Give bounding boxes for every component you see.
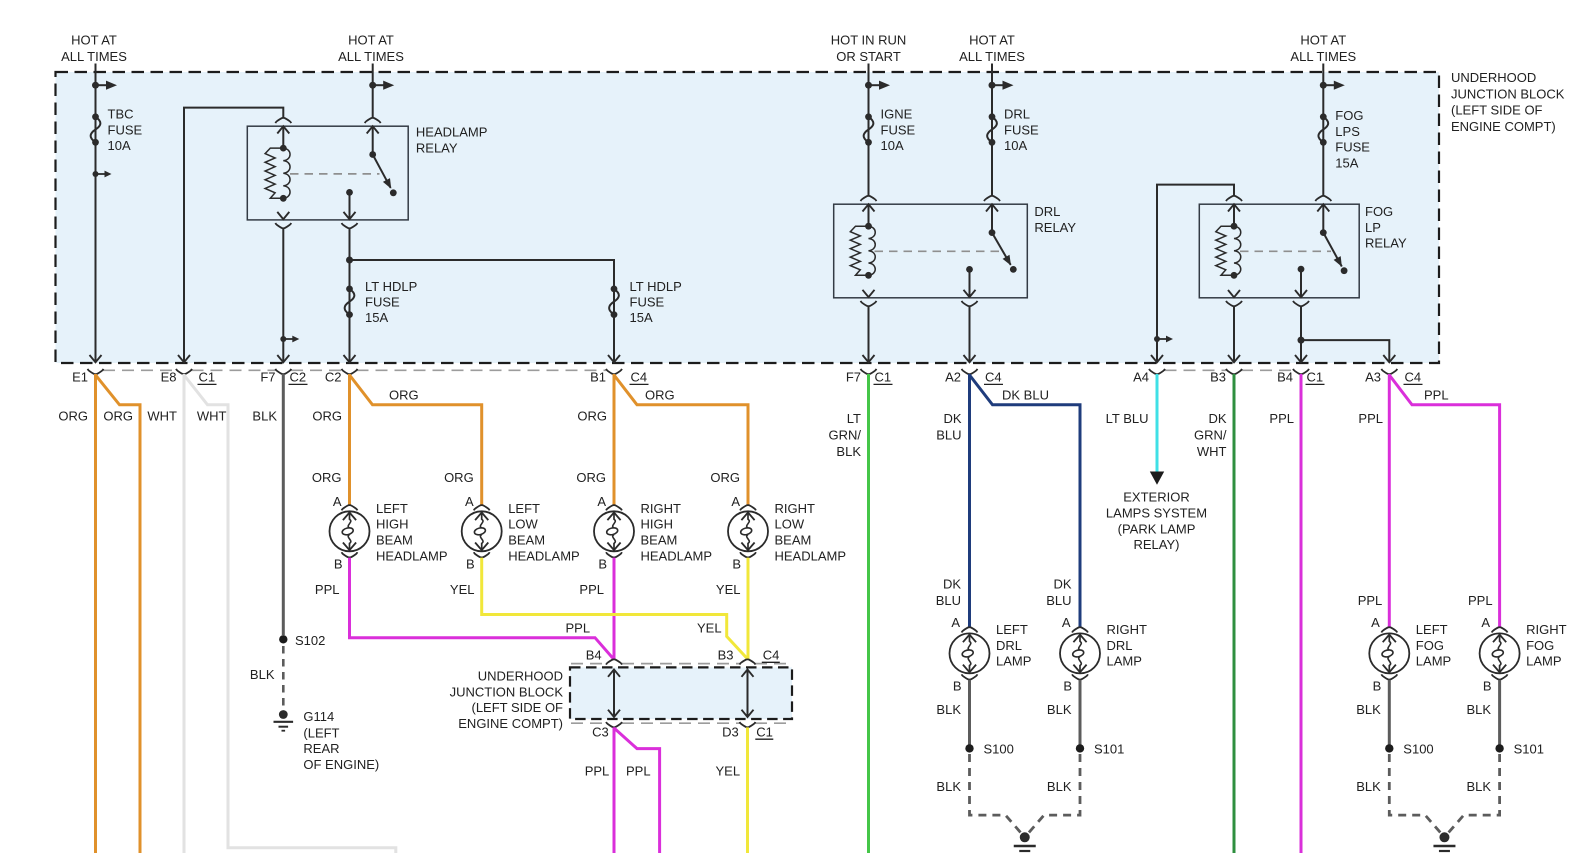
svg-text:LT: LT: [847, 411, 861, 426]
wire: DRL common to A2: [962, 301, 978, 362]
label C4 (block2): [762, 648, 780, 663]
label: fog lamp 1 name: [1416, 622, 1451, 669]
node: fog output junction: [1298, 337, 1305, 344]
wire WHT E8 jog branch with bottom offset: [184, 375, 396, 853]
marker: feed arrow headlamp: [369, 81, 394, 90]
svg-text:15A: 15A: [630, 310, 653, 325]
svg-text:YEL: YEL: [697, 620, 722, 635]
svg-text:ALL TIMES: ALL TIMES: [959, 49, 1025, 64]
wire BLK dashed drl left to ground: [970, 754, 1024, 836]
connector A4: [1133, 369, 1165, 385]
marker: feed arrow at TBC top: [92, 81, 117, 90]
svg-text:BLK: BLK: [1467, 779, 1492, 794]
headlamp relay switch pin entry (top): [365, 64, 381, 155]
svg-text:BEAM: BEAM: [641, 533, 678, 548]
lamp: left high beam headlamp: [330, 505, 370, 557]
svg-text:B4: B4: [1277, 370, 1293, 385]
svg-text:PPL: PPL: [1269, 411, 1294, 426]
wire YEL left low beam B to B3: [482, 558, 748, 659]
wire YEL right low beam B to B3: [747, 558, 750, 660]
svg-text:WHT: WHT: [197, 409, 227, 424]
connector F7 / C1 (DRL): [846, 369, 893, 385]
svg-text:(PARK LAMP: (PARK LAMP: [1118, 521, 1196, 536]
wire: branch to A3: [1301, 340, 1389, 361]
marker: small tap arrow on A4 wire: [1154, 336, 1173, 343]
wire BLK dashed fog left to ground: [1389, 754, 1443, 836]
wire BLK drl lamp 2 to splice: [1079, 680, 1082, 745]
block2 pass-through B3-D3: [740, 659, 756, 727]
svg-text:15A: 15A: [1335, 155, 1358, 170]
svg-text:B3: B3: [1210, 370, 1226, 385]
svg-text:ORG: ORG: [576, 470, 606, 485]
wire BLK dashed S102 to G114: [282, 646, 285, 706]
svg-text:B: B: [1483, 678, 1492, 693]
svg-text:LAMPS SYSTEM: LAMPS SYSTEM: [1106, 506, 1207, 521]
underhood junction block (top) dashed border: [56, 72, 1440, 363]
label: left low beam headlamp name: [508, 501, 580, 563]
relay box: DRL RELAY: [834, 204, 1028, 298]
block2 pass-through B4-C3: [606, 659, 622, 727]
wire DK GRN/WHT B3: [1233, 374, 1236, 853]
svg-text:B: B: [466, 556, 475, 571]
svg-text:F7: F7: [260, 370, 275, 385]
label DK GRN/WHT: [1194, 411, 1227, 459]
svg-text:BLK: BLK: [252, 409, 277, 424]
wire LT BLU A4 stub: [1156, 374, 1159, 472]
svg-text:RELAY: RELAY: [1365, 236, 1407, 251]
lamp: RIGHT FOG LAMP: [1480, 627, 1520, 679]
label G114 (LEFT REAR OF ENGINE): [303, 709, 379, 772]
arrow into connector A3: [1383, 355, 1395, 362]
DRL relay coil: [850, 223, 875, 279]
svg-text:YEL: YEL: [450, 582, 475, 597]
svg-text:LPS: LPS: [1335, 124, 1360, 139]
wire: headlamp relay common down to LT HDLP fuses: [342, 223, 358, 362]
svg-text:HEADLAMP: HEADLAMP: [376, 548, 448, 563]
arrow into connector B1: [608, 355, 620, 362]
svg-text:B1: B1: [590, 370, 606, 385]
wire: FOG LPS feed: [1322, 64, 1324, 196]
svg-text:DK: DK: [1053, 577, 1071, 592]
svg-text:WHT: WHT: [1197, 444, 1227, 459]
svg-text:IGNE: IGNE: [881, 107, 913, 122]
svg-text:ALL TIMES: ALL TIMES: [1290, 49, 1356, 64]
svg-text:HOT AT: HOT AT: [348, 33, 394, 48]
label: UNDERHOOD JUNCTION BLOCK (left of block2): [450, 669, 564, 731]
svg-text:PPL: PPL: [585, 764, 610, 779]
svg-text:A: A: [731, 494, 740, 509]
svg-text:BLK: BLK: [1047, 779, 1072, 794]
wire PPL right high beam B to B4: [613, 558, 616, 660]
svg-text:FUSE: FUSE: [108, 122, 143, 137]
wire BLK drl lamp 1 to splice: [968, 680, 971, 745]
svg-text:FOG: FOG: [1365, 204, 1393, 219]
svg-text:JUNCTION BLOCK: JUNCTION BLOCK: [1451, 86, 1565, 101]
svg-text:FUSE: FUSE: [630, 295, 665, 310]
label: HOT AT ALL TIMES (headlamp relay): [338, 33, 404, 64]
label: HOT AT ALL TIMES (FOG): [1290, 33, 1356, 64]
svg-text:LEFT: LEFT: [1416, 622, 1448, 637]
wire DK BLU A2 to left DRL lamp: [968, 374, 971, 628]
wire: fog common to B4 and A3: [1293, 301, 1309, 362]
wire BLK dashed drl right to ground: [1026, 754, 1080, 836]
wire: TBC feed E1 vertical: [95, 64, 97, 362]
lamp: LEFT DRL LAMP: [950, 627, 990, 679]
arrow into connector F7 (C2): [277, 355, 289, 362]
svg-text:BLK: BLK: [1047, 702, 1072, 717]
fog relay armature dashed link: [1240, 250, 1331, 252]
svg-text:UNDERHOOD: UNDERHOOD: [1451, 70, 1536, 85]
svg-text:LAMP: LAMP: [1526, 654, 1561, 669]
wire PPL A3 to left fog lamp: [1388, 374, 1391, 628]
marker: feed arrow DRL: [989, 81, 1014, 90]
svg-text:ORG: ORG: [312, 470, 342, 485]
svg-text:HOT AT: HOT AT: [969, 33, 1015, 48]
label DK BLU above drl lamp 1: [936, 577, 962, 608]
fuse TBC FUSE 10A: [91, 107, 143, 153]
svg-text:BLU: BLU: [936, 427, 961, 442]
headlamp relay common pin: [344, 189, 356, 220]
svg-text:G114: G114: [303, 709, 334, 724]
svg-text:FUSE: FUSE: [881, 122, 916, 137]
svg-text:(LEFT: (LEFT: [303, 725, 339, 740]
arrow into connector B3: [1228, 355, 1240, 362]
svg-text:HIGH: HIGH: [641, 517, 674, 532]
wire: E8 to headlamp relay coil: [184, 108, 283, 362]
svg-text:10A: 10A: [1004, 138, 1027, 153]
svg-text:HOT AT: HOT AT: [1300, 33, 1346, 48]
arrow into connector F7 (C1): [863, 355, 875, 362]
ground fog: [1433, 832, 1455, 853]
arrow into connector C2: [344, 355, 356, 362]
wire: crossover to right LT HDLP fuse: [350, 260, 615, 362]
svg-text:DRL: DRL: [1107, 638, 1133, 653]
splice S101 drl: [1076, 742, 1125, 757]
svg-text:PPL: PPL: [315, 582, 340, 597]
label: HOT AT ALL TIMES (TBC): [61, 33, 127, 64]
svg-text:BEAM: BEAM: [508, 533, 545, 548]
svg-text:ENGINE COMPT): ENGINE COMPT): [458, 716, 563, 731]
svg-text:C1: C1: [1307, 370, 1324, 385]
DRL relay switch pin entry: [984, 196, 1000, 233]
svg-text:RIGHT: RIGHT: [1107, 622, 1148, 637]
svg-text:PPL: PPL: [579, 582, 604, 597]
svg-text:HEADLAMP: HEADLAMP: [508, 548, 580, 563]
label: left high beam headlamp name: [376, 501, 448, 563]
svg-text:BLK: BLK: [1467, 702, 1492, 717]
label C1 (block2): [755, 724, 773, 739]
gray dashed rows block2 bottom: [571, 722, 791, 724]
lamp: right high beam headlamp: [594, 505, 634, 557]
svg-text:LEFT: LEFT: [508, 501, 540, 516]
arrow into connector E1: [90, 355, 102, 362]
label LT GRN/BLK: [829, 411, 862, 459]
fog relay coil pin entry: [1226, 196, 1242, 226]
svg-text:BLK: BLK: [1356, 702, 1381, 717]
svg-text:GRN/: GRN/: [1194, 427, 1227, 442]
wire: A4 up-and-over to fog relay coil: [1157, 185, 1234, 362]
svg-text:ALL TIMES: ALL TIMES: [338, 49, 404, 64]
wire YEL D3 down: [746, 727, 749, 853]
svg-text:OR START: OR START: [836, 49, 901, 64]
label: drl lamp 2 name: [1107, 622, 1148, 669]
marker: feed arrow FOG: [1320, 81, 1345, 90]
underhood junction block (top) fill: [56, 72, 1440, 363]
DRL relay switch arm: [989, 229, 1017, 273]
svg-text:LT HDLP: LT HDLP: [630, 279, 682, 294]
svg-text:C4: C4: [1405, 370, 1422, 385]
svg-text:C4: C4: [763, 648, 780, 663]
svg-text:GRN/: GRN/: [829, 427, 862, 442]
svg-text:HOT AT: HOT AT: [71, 33, 117, 48]
svg-text:LEFT: LEFT: [996, 622, 1028, 637]
headlamp relay coil pin entry (top): [275, 118, 291, 148]
connector F7 / C2: [260, 369, 307, 385]
svg-text:PPL: PPL: [1424, 388, 1449, 403]
svg-text:HEADLAMP: HEADLAMP: [641, 548, 713, 563]
splice S101 fog: [1495, 742, 1544, 757]
svg-text:RELAY): RELAY): [1134, 537, 1180, 552]
svg-text:HEADLAMP: HEADLAMP: [416, 125, 488, 140]
label: right high beam headlamp name: [641, 501, 713, 563]
fog relay switch arm: [1320, 229, 1348, 274]
arrow into connector E8: [178, 355, 190, 362]
svg-text:E8: E8: [161, 370, 177, 385]
svg-text:C4: C4: [631, 370, 648, 385]
svg-text:PPL: PPL: [566, 620, 591, 635]
svg-text:C1: C1: [756, 724, 773, 739]
fog relay common pin: [1295, 266, 1307, 298]
DRL relay common pin: [964, 266, 976, 298]
svg-text:ORG: ORG: [444, 470, 474, 485]
svg-text:DRL: DRL: [1004, 107, 1030, 122]
underhood junction block 2 fill: [570, 667, 792, 719]
svg-text:DK: DK: [1208, 411, 1226, 426]
svg-text:PPL: PPL: [626, 764, 651, 779]
relay box: FOG LP RELAY: [1199, 204, 1359, 298]
svg-text:ORG: ORG: [389, 388, 419, 403]
headlamp relay switch arm: [369, 151, 396, 196]
splice S100 fog: [1385, 742, 1434, 757]
headlamp relay coil output pin (bottom): [275, 212, 291, 362]
splice S100 drl: [965, 742, 1014, 757]
wire BLK dashed fog right to ground: [1446, 754, 1500, 836]
svg-text:BLU: BLU: [1046, 593, 1071, 608]
svg-text:FUSE: FUSE: [1004, 122, 1039, 137]
svg-text:S101: S101: [1514, 742, 1544, 757]
svg-text:C2: C2: [325, 370, 342, 385]
marker: small tap arrow on F7 wire: [280, 336, 299, 343]
wire PPL C3 jog branch: [614, 728, 660, 853]
wire ORG E1 jog branch: [96, 375, 141, 853]
label: DRL RELAY: [1034, 204, 1076, 235]
svg-text:S100: S100: [1403, 742, 1433, 757]
wire PPL B4 C1: [1300, 374, 1303, 853]
connector B3: [1210, 369, 1242, 385]
svg-text:D3: D3: [722, 724, 739, 739]
svg-text:ORG: ORG: [103, 409, 133, 424]
svg-text:10A: 10A: [108, 138, 131, 153]
svg-text:ORG: ORG: [312, 409, 342, 424]
fuse IGNE FUSE 10A: [864, 107, 916, 153]
wire DK BLU A2 jog to right DRL lamp: [970, 375, 1081, 628]
label: right low beam headlamp name: [775, 501, 847, 563]
svg-text:C1: C1: [875, 370, 892, 385]
wire: IGNE feed: [868, 64, 870, 196]
svg-text:S101: S101: [1094, 742, 1124, 757]
wire ORG B1 jog to right low beam: [614, 375, 748, 506]
svg-text:FUSE: FUSE: [365, 295, 400, 310]
svg-text:A: A: [333, 494, 342, 509]
svg-text:DRL: DRL: [1034, 204, 1060, 219]
svg-text:FOG: FOG: [1335, 108, 1363, 123]
svg-text:FUSE: FUSE: [1335, 140, 1370, 155]
fuse DRL FUSE 10A: [987, 107, 1039, 153]
svg-text:S100: S100: [984, 742, 1014, 757]
svg-text:HEADLAMP: HEADLAMP: [775, 548, 847, 563]
svg-text:(LEFT SIDE OF: (LEFT SIDE OF: [1451, 103, 1543, 118]
label: HOT AT ALL TIMES (DRL): [959, 33, 1025, 64]
wire LT GRN/BLK F7 C1: [867, 374, 870, 853]
gray dashed connector row segments below block: [103, 369, 1294, 371]
svg-text:B: B: [732, 556, 741, 571]
svg-text:BEAM: BEAM: [775, 533, 812, 548]
wire ORG E1 vertical: [94, 374, 97, 853]
lamp: RIGHT DRL LAMP: [1060, 627, 1100, 679]
svg-text:LAMP: LAMP: [1416, 654, 1451, 669]
label DK BLU (A2): [936, 411, 962, 443]
relay box: HEADLAMP RELAY: [247, 126, 408, 220]
wire: DRL feed: [991, 64, 993, 196]
svg-text:F7: F7: [846, 370, 861, 385]
svg-text:C2: C2: [290, 370, 307, 385]
svg-text:RIGHT: RIGHT: [775, 501, 816, 516]
connector E8 / C1: [161, 369, 217, 385]
DRL relay coil output to F7 C1: [861, 290, 877, 362]
underhood junction block 2 dashed border: [570, 667, 792, 719]
svg-text:LOW: LOW: [508, 517, 538, 532]
svg-text:BLK: BLK: [250, 667, 275, 682]
svg-text:LT BLU: LT BLU: [1106, 411, 1149, 426]
svg-text:BLU: BLU: [936, 593, 961, 608]
svg-text:B: B: [1063, 678, 1072, 693]
svg-text:PPL: PPL: [1468, 593, 1493, 608]
wire WHT E8 vertical: [183, 374, 186, 853]
svg-text:BEAM: BEAM: [376, 533, 413, 548]
svg-text:RELAY: RELAY: [1034, 220, 1076, 235]
svg-text:A: A: [1062, 615, 1071, 630]
svg-text:A: A: [465, 494, 474, 509]
svg-text:LP: LP: [1365, 220, 1381, 235]
DRL relay armature dashed link: [875, 250, 1000, 252]
svg-text:FOG: FOG: [1526, 638, 1554, 653]
fog relay switch pin entry: [1315, 196, 1331, 233]
svg-text:PPL: PPL: [1358, 593, 1383, 608]
DRL relay coil pin entry: [861, 196, 877, 226]
fuse FOG LPS FUSE 15A: [1318, 108, 1370, 170]
svg-text:E1: E1: [72, 370, 88, 385]
arrow into connector A4: [1151, 355, 1163, 362]
fuse LT HDLP FUSE 15A (right): [609, 279, 682, 325]
svg-text:RIGHT: RIGHT: [641, 501, 682, 516]
svg-text:B: B: [1373, 678, 1382, 693]
gray dashed rows block2 top: [571, 663, 791, 665]
svg-text:DK: DK: [943, 577, 961, 592]
svg-text:C1: C1: [199, 370, 216, 385]
wire PPL left high beam B to B4: [350, 558, 615, 660]
splice S102: [279, 633, 325, 648]
ground drl: [1014, 832, 1036, 853]
wire PPL C3 down: [613, 727, 616, 853]
svg-text:A: A: [597, 494, 606, 509]
svg-text:UNDERHOOD: UNDERHOOD: [478, 669, 563, 684]
svg-text:HIGH: HIGH: [376, 517, 409, 532]
svg-text:ENGINE COMPT): ENGINE COMPT): [1451, 119, 1556, 134]
svg-text:DK: DK: [943, 411, 961, 426]
svg-text:B: B: [953, 678, 962, 693]
svg-text:LAMP: LAMP: [996, 654, 1031, 669]
svg-text:ORG: ORG: [58, 409, 88, 424]
label: UNDERHOOD JUNCTION BLOCK (top right): [1451, 70, 1565, 134]
svg-text:YEL: YEL: [716, 764, 741, 779]
connector A3 / C4: [1365, 369, 1422, 385]
svg-text:RIGHT: RIGHT: [1526, 622, 1567, 637]
connector B4 / C1: [1277, 369, 1324, 385]
svg-text:B3: B3: [718, 648, 734, 663]
label: HEADLAMP RELAY: [416, 125, 488, 156]
svg-text:15A: 15A: [365, 310, 388, 325]
svg-text:A: A: [951, 615, 960, 630]
svg-text:ALL TIMES: ALL TIMES: [61, 49, 127, 64]
label: fog lamp 2 name: [1526, 622, 1567, 669]
svg-text:C3: C3: [592, 724, 609, 739]
arrow into connector B4: [1295, 355, 1307, 362]
svg-text:A: A: [1371, 615, 1380, 630]
svg-text:A3: A3: [1365, 370, 1381, 385]
svg-text:B: B: [334, 556, 343, 571]
headlamp relay coil: [265, 145, 290, 202]
svg-text:LT HDLP: LT HDLP: [365, 279, 417, 294]
label DK BLU above drl lamp 2: [1046, 577, 1072, 608]
svg-text:S102: S102: [295, 633, 325, 648]
svg-text:BLK: BLK: [836, 444, 861, 459]
wire BLK fog lamp 1 to splice: [1388, 680, 1391, 745]
svg-text:LOW: LOW: [775, 517, 805, 532]
svg-text:FOG: FOG: [1416, 638, 1444, 653]
marker: small tap arrow below TBC fuse: [93, 171, 112, 178]
svg-text:JUNCTION BLOCK: JUNCTION BLOCK: [450, 684, 564, 699]
svg-text:BLK: BLK: [936, 702, 961, 717]
wire ORG C2 jog to left low beam: [350, 375, 482, 506]
svg-text:BLK: BLK: [936, 779, 961, 794]
wire BLK F7/C2 to S102: [282, 374, 285, 635]
svg-text:ORG: ORG: [710, 470, 740, 485]
svg-text:BLK: BLK: [1356, 779, 1381, 794]
svg-text:ORG: ORG: [577, 409, 607, 424]
lamp: right low beam headlamp: [728, 505, 768, 557]
svg-text:YEL: YEL: [716, 582, 741, 597]
headlamp relay armature dashed link: [290, 173, 380, 175]
arrow: off-page to exterior lamps system: [1150, 472, 1164, 485]
svg-text:OF ENGINE): OF ENGINE): [303, 757, 379, 772]
svg-text:A2: A2: [945, 370, 961, 385]
svg-text:ORG: ORG: [645, 388, 675, 403]
connector A2 / C4: [945, 369, 1003, 385]
svg-text:RELAY: RELAY: [416, 140, 458, 155]
label: HOT IN RUN OR START (IGNE): [831, 33, 907, 64]
svg-text:(LEFT SIDE OF: (LEFT SIDE OF: [472, 700, 564, 715]
lamp: left low beam headlamp: [462, 505, 502, 557]
